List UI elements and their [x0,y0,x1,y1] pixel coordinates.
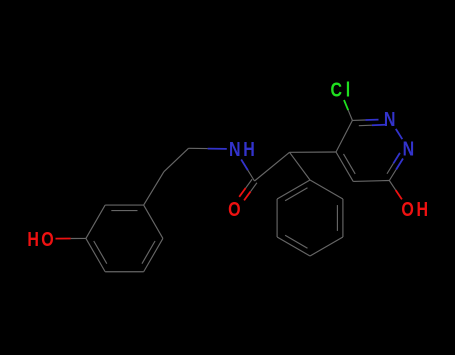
label Cl (chlorine) [330,79,350,101]
bond N-N [396,129,403,139]
svg-text:H: H [417,198,429,220]
svg-text:O: O [401,198,413,220]
bond carbonyl-CH [255,152,290,181]
svg-text:H: H [243,139,255,161]
bond CH2-CH2 [164,148,189,171]
svg-text:N: N [403,138,415,160]
bond N-C carbonyl [241,160,254,182]
bond CH-phenyl [290,152,311,180]
bond HO-ring [56,237,86,239]
pyridazine ring C-C bonds [336,120,389,181]
double bond C=N (ring) [352,120,385,126]
double bond N=C (ring) [387,153,403,181]
svg-text:l: l [346,79,350,101]
svg-text:O: O [41,228,53,250]
svg-text:C: C [330,79,342,101]
label HO (phenol hydroxyl) [27,228,53,250]
bond ring-CH2 [144,172,164,205]
central phenyl ring [277,180,343,256]
label NH (amide nitrogen) [229,139,255,161]
bond C-Cl [344,100,352,120]
double bond C=O (amide) [239,179,257,200]
bond C-OH [389,181,402,200]
svg-text:O: O [228,198,240,220]
bond CH-pyridazine [290,151,337,153]
svg-text:N: N [229,139,241,161]
label N (ring nitrogen 1) [384,108,396,130]
phenol ring (4-hydroxyphenyl) [86,205,163,272]
label O (amide oxygen) [228,198,240,220]
svg-text:N: N [384,108,396,130]
bond CH2-N [189,147,227,150]
svg-text:H: H [27,228,39,250]
label OH (ring hydroxyl) [401,198,428,220]
label N (ring nitrogen 2) [403,138,415,160]
